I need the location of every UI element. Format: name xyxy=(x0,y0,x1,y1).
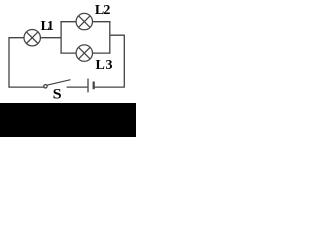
wire: from L1 left terminal, left then down the left side, along bottom to switch terminal xyxy=(9,38,44,87)
svg-text:L3: L3 xyxy=(96,58,114,73)
lamp L1 xyxy=(24,30,40,46)
wire: top branch left segment xyxy=(60,21,76,23)
wire: bottom branch right segment xyxy=(92,52,110,54)
wire: bottom wire from switch pivot to battery long plate xyxy=(67,86,88,88)
battery: short negative plate xyxy=(93,82,95,90)
wire: main wire from L1 right terminal to parallel-box left vertical xyxy=(40,37,61,39)
battery: long positive plate xyxy=(87,79,89,93)
svg-text:S: S xyxy=(53,86,62,102)
switch S xyxy=(44,80,71,88)
wire: top branch right segment xyxy=(92,21,110,23)
wire: bottom branch left segment xyxy=(60,52,76,54)
wire: connector from box right vertical to outer right wire, down right side, left to battery xyxy=(95,35,125,87)
wire: parallel box right vertical xyxy=(109,22,111,53)
wire: parallel box left vertical xyxy=(60,22,62,53)
lamp L2 xyxy=(76,13,92,29)
lamp L3 xyxy=(76,45,92,61)
svg-text:L2: L2 xyxy=(95,3,110,18)
black letterbox band at bottom xyxy=(0,103,136,137)
svg-text:L1: L1 xyxy=(41,18,54,33)
